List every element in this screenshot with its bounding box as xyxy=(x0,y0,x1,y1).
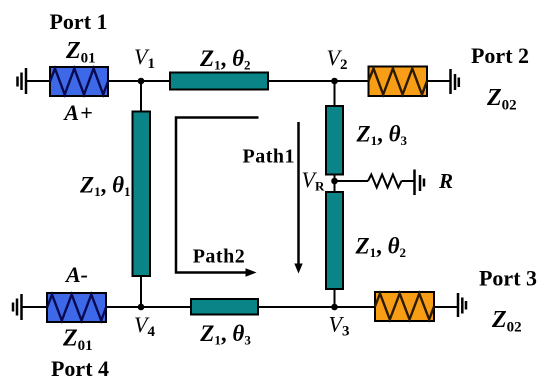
wire R3 to ground (port 3) xyxy=(434,306,458,308)
svg-text:R: R xyxy=(438,169,453,193)
wire TL theta3 to node VR xyxy=(334,174,336,193)
resistor Z01 (port 1, blue) xyxy=(50,67,108,96)
svg-text:Z1, θ1: Z1, θ1 xyxy=(79,173,131,200)
wire TL theta1 to V4 xyxy=(140,276,142,308)
wire ground to R1 xyxy=(26,80,50,82)
wire resistor R to ground xyxy=(402,180,415,182)
transmission line Z1,theta3 (bottom horizontal) xyxy=(191,299,258,315)
wire V1 down to TL theta1 xyxy=(140,81,142,112)
node V4 xyxy=(138,304,145,311)
svg-text:A+: A+ xyxy=(62,100,93,125)
wire R1 to node V1 to TL top xyxy=(108,80,170,82)
ground (port 3, right) xyxy=(458,293,466,317)
ground (port 1, left) xyxy=(18,68,27,94)
svg-text:Port 3: Port 3 xyxy=(479,266,537,291)
node V3 xyxy=(331,304,338,311)
transmission line Z1,theta1 (left vertical) xyxy=(133,112,151,277)
wire R2 to ground (port 2) xyxy=(427,80,451,82)
resistor Z01 (port 4, blue) xyxy=(47,293,106,322)
ground (resistor R) xyxy=(415,170,425,196)
svg-text:Z1, θ3: Z1, θ3 xyxy=(356,122,408,149)
wire TL top to node V2 to R2 xyxy=(268,80,369,82)
transmission line Z1,theta3 (right upper vertical) xyxy=(326,106,343,175)
svg-text:Path2: Path2 xyxy=(193,246,246,268)
wire VR node to resistor R xyxy=(335,180,369,182)
svg-text:A-: A- xyxy=(64,262,88,287)
svg-text:Port 2: Port 2 xyxy=(471,43,529,68)
resistor R (zigzag) xyxy=(368,175,402,188)
resistor Z02 (port 3, orange) xyxy=(375,292,434,321)
wire TL bottom to node V3 to R3 xyxy=(258,306,375,308)
node VR xyxy=(331,178,338,185)
Path2 arrow (bracket, right) xyxy=(176,118,259,277)
svg-text:Path1: Path1 xyxy=(243,146,296,168)
svg-text:Port 1: Port 1 xyxy=(49,9,107,34)
wire TL to node V3 xyxy=(334,289,336,308)
svg-text:Z1, θ3: Z1, θ3 xyxy=(199,321,251,348)
transmission line Z1,theta2 (top horizontal) xyxy=(170,73,268,90)
svg-text:Port 4: Port 4 xyxy=(51,356,109,381)
ground (port 2, right) xyxy=(451,69,459,94)
wire R4 to node V4 to TL bottom xyxy=(106,306,191,308)
node V1 xyxy=(138,78,145,85)
svg-text:Z1, θ2: Z1, θ2 xyxy=(199,46,251,73)
wire ground to R4 xyxy=(22,306,48,308)
node V2 xyxy=(331,78,338,85)
wire V2 down to TL theta3 xyxy=(334,81,336,107)
Path1 arrow (down) xyxy=(294,122,302,274)
resistor Z02 (port 2, orange) xyxy=(369,67,428,97)
svg-text:Z1, θ2: Z1, θ2 xyxy=(355,234,407,261)
ground (port 4, left) xyxy=(13,294,22,320)
transmission line Z1,theta2 (right lower vertical) xyxy=(326,192,343,289)
